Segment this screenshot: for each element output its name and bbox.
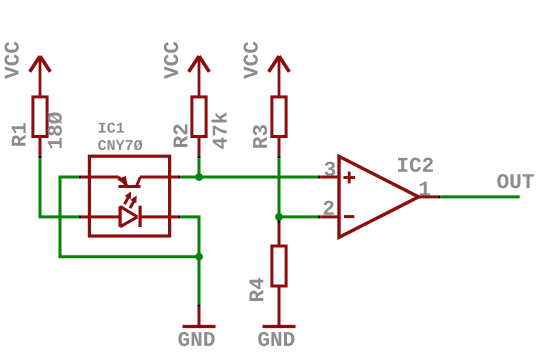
wire net N2: junction down to GND — [198, 257, 201, 305]
tick op-amp pin 2 — [318, 215, 320, 218]
wire net N1: right to LED anode — [39, 215, 79, 218]
wire net N2: cathode to right — [180, 215, 200, 218]
pin/net tick below R2 — [198, 156, 201, 158]
pin stub below R4 to GND — [278, 286, 281, 327]
supply symbol VCC (x=40) — [30, 56, 51, 97]
net label GND (left) — [178, 332, 214, 346]
op-amp - (inverting input mark) — [344, 215, 354, 218]
ground symbol GND (left): pin — [198, 307, 201, 327]
wire net N2: emitter to left — [59, 176, 79, 179]
pin stub IC1 top-left (emitter) — [81, 176, 89, 179]
value 180 — [47, 112, 62, 148]
tick cathode pin — [178, 215, 180, 218]
value CNY70 — [98, 140, 142, 151]
pin stub IC1 top-right (collector) — [170, 176, 178, 179]
label R1 — [12, 123, 26, 146]
wire net N1: R1 down — [39, 158, 42, 217]
pin stub IC1 bottom-right (cathode) — [170, 215, 178, 218]
resistor R1 body — [33, 97, 47, 137]
net label VCC (x=199) — [164, 42, 178, 79]
pin stub below R3 — [278, 137, 281, 156]
ground symbol GND (right): bar — [263, 325, 296, 328]
op-amp IC2 triangle — [339, 156, 419, 237]
ground symbol GND (left): bar — [183, 325, 216, 328]
phototransistor base bar — [119, 185, 141, 188]
op-amp + (non-inverting input mark) — [343, 172, 355, 184]
supply symbol VCC (x=279) — [269, 56, 290, 97]
wire net N3: junction to op-amp pin 3 — [199, 176, 318, 179]
wire net N3: R2 down to junction — [198, 158, 201, 177]
optocoupler IC1 body box — [89, 156, 169, 236]
phototransistor collector lead — [136, 177, 169, 186]
pin/net tick below R1 — [39, 156, 42, 158]
label R2 — [173, 124, 187, 147]
resistor R2 body — [192, 97, 206, 137]
value 47k — [211, 112, 226, 148]
wire net N2: across to GND junction — [59, 255, 200, 258]
label R3 — [253, 125, 267, 148]
pin stub below R2 — [198, 137, 201, 156]
pin number 3 — [325, 162, 336, 176]
pin/net tick below R3 — [278, 156, 281, 158]
light arrow 1 (LED light to transistor) — [125, 191, 132, 204]
op-amp output pin 1 stub — [419, 195, 438, 198]
tick op-amp pin 3 — [318, 176, 320, 179]
op-amp pin 2 stub — [320, 215, 339, 218]
label IC2 — [398, 158, 433, 172]
tick output pin — [438, 195, 440, 198]
pin number 2 — [324, 201, 334, 215]
junction dot: net N2 at GND column — [195, 253, 203, 261]
resistor R3 body — [272, 97, 286, 137]
light arrow 2 (LED light to transistor) — [130, 195, 137, 208]
pin number 1 — [420, 182, 430, 196]
tick collector pin — [178, 176, 180, 179]
pin stub below R1 — [39, 137, 42, 156]
tick emitter pin — [79, 176, 81, 179]
tick GND pin (left) — [198, 304, 201, 307]
phototransistor emitter arrowhead — [117, 176, 128, 187]
tick at LED anode pin — [79, 215, 81, 218]
label R4 — [249, 278, 263, 301]
wire net OUT — [440, 195, 520, 198]
op-amp pin 3 stub — [320, 176, 339, 179]
wire net N3: collector to junction — [180, 176, 199, 179]
net label GND (right) — [258, 332, 294, 346]
wire net N2: down left side — [59, 176, 62, 257]
wire net N4: junction to op-amp pin 2 — [279, 215, 318, 218]
junction dot: R3 / R4 / pin 2 — [275, 213, 283, 221]
wire net N4: R3 down to junction (crosses net N3) — [278, 158, 281, 217]
LED of IC1: anode wire inside box — [89, 215, 120, 218]
label IC1 — [99, 123, 124, 133]
supply symbol VCC (x=199) — [189, 56, 210, 97]
wire net N2: down to junction — [198, 217, 201, 257]
net label VCC (x=40) — [5, 42, 19, 79]
LED cathode wire inside box — [140, 215, 170, 218]
phototransistor of IC1: emitter lead — [89, 177, 127, 186]
resistor R4 body — [272, 246, 286, 286]
junction dot: R2 / collector / pin 3 — [195, 173, 203, 181]
net label OUT — [497, 174, 533, 188]
LED triangle — [120, 206, 137, 227]
LED cathode bar — [139, 206, 142, 227]
net label VCC (x=279) — [244, 42, 258, 79]
pin stub above R4 — [278, 223, 281, 246]
tick R4 top pin — [278, 220, 281, 223]
pin stub IC1 anode — [81, 215, 89, 218]
